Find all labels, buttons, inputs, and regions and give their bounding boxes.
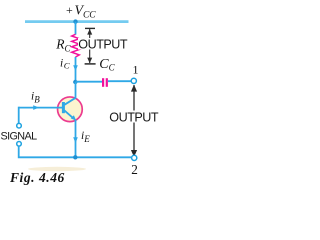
svg-text:1: 1 [133, 62, 139, 76]
resistor RC [72, 34, 80, 57]
wire (base) [19, 107, 63, 109]
transistor base bar [62, 102, 65, 113]
label OUTPUT (left) [78, 38, 127, 50]
svg-text:2: 2 [131, 162, 138, 177]
current arrow iB [33, 105, 39, 110]
wire (signal to bottom rail + bottom rail to terminal 2) [19, 146, 132, 157]
svg-text:Fig. 4.46: Fig. 4.46 [9, 170, 65, 185]
right OUTPUT dimension arrow [131, 85, 137, 157]
signal source terminal (top) [17, 123, 22, 128]
left OUTPUT dimension arrow [85, 28, 96, 64]
svg-text:SIGNAL: SIGNAL [1, 130, 38, 142]
transistor Q1 [58, 97, 83, 122]
wire (emitter down to bottom rail) [75, 120, 77, 158]
label OUTPUT (right) [109, 111, 160, 123]
node C (emitter junction on bottom rail) [73, 155, 77, 159]
node A (junction on VCC rail) [73, 19, 77, 23]
signal source terminal (bottom) [17, 142, 22, 147]
svg-text:+: + [66, 3, 73, 17]
wire (node to capacitor) [76, 81, 103, 83]
faint highlighter streak artifact [28, 167, 86, 171]
VCC supply rail wire [25, 20, 129, 23]
transistor collector stroke [64, 98, 75, 105]
capacitor CC [102, 78, 104, 87]
wire (left drop to signal source) [18, 107, 20, 124]
terminal 1 [131, 78, 136, 83]
svg-text:OUTPUT: OUTPUT [109, 110, 159, 124]
node B (collector junction) [73, 80, 77, 84]
wire (collector node down to transistor) [75, 82, 77, 99]
svg-text:OUTPUT: OUTPUT [78, 38, 128, 52]
transistor emitter arrowhead [71, 115, 77, 121]
terminal 2 [132, 155, 137, 160]
wire (rail to resistor) [75, 22, 77, 35]
wire (capacitor to terminal 1) [108, 80, 132, 82]
current arrow iE [73, 137, 78, 143]
wire (resistor to collector node) [75, 57, 77, 82]
transistor emitter stroke [64, 110, 73, 118]
current arrow iC [73, 65, 78, 71]
